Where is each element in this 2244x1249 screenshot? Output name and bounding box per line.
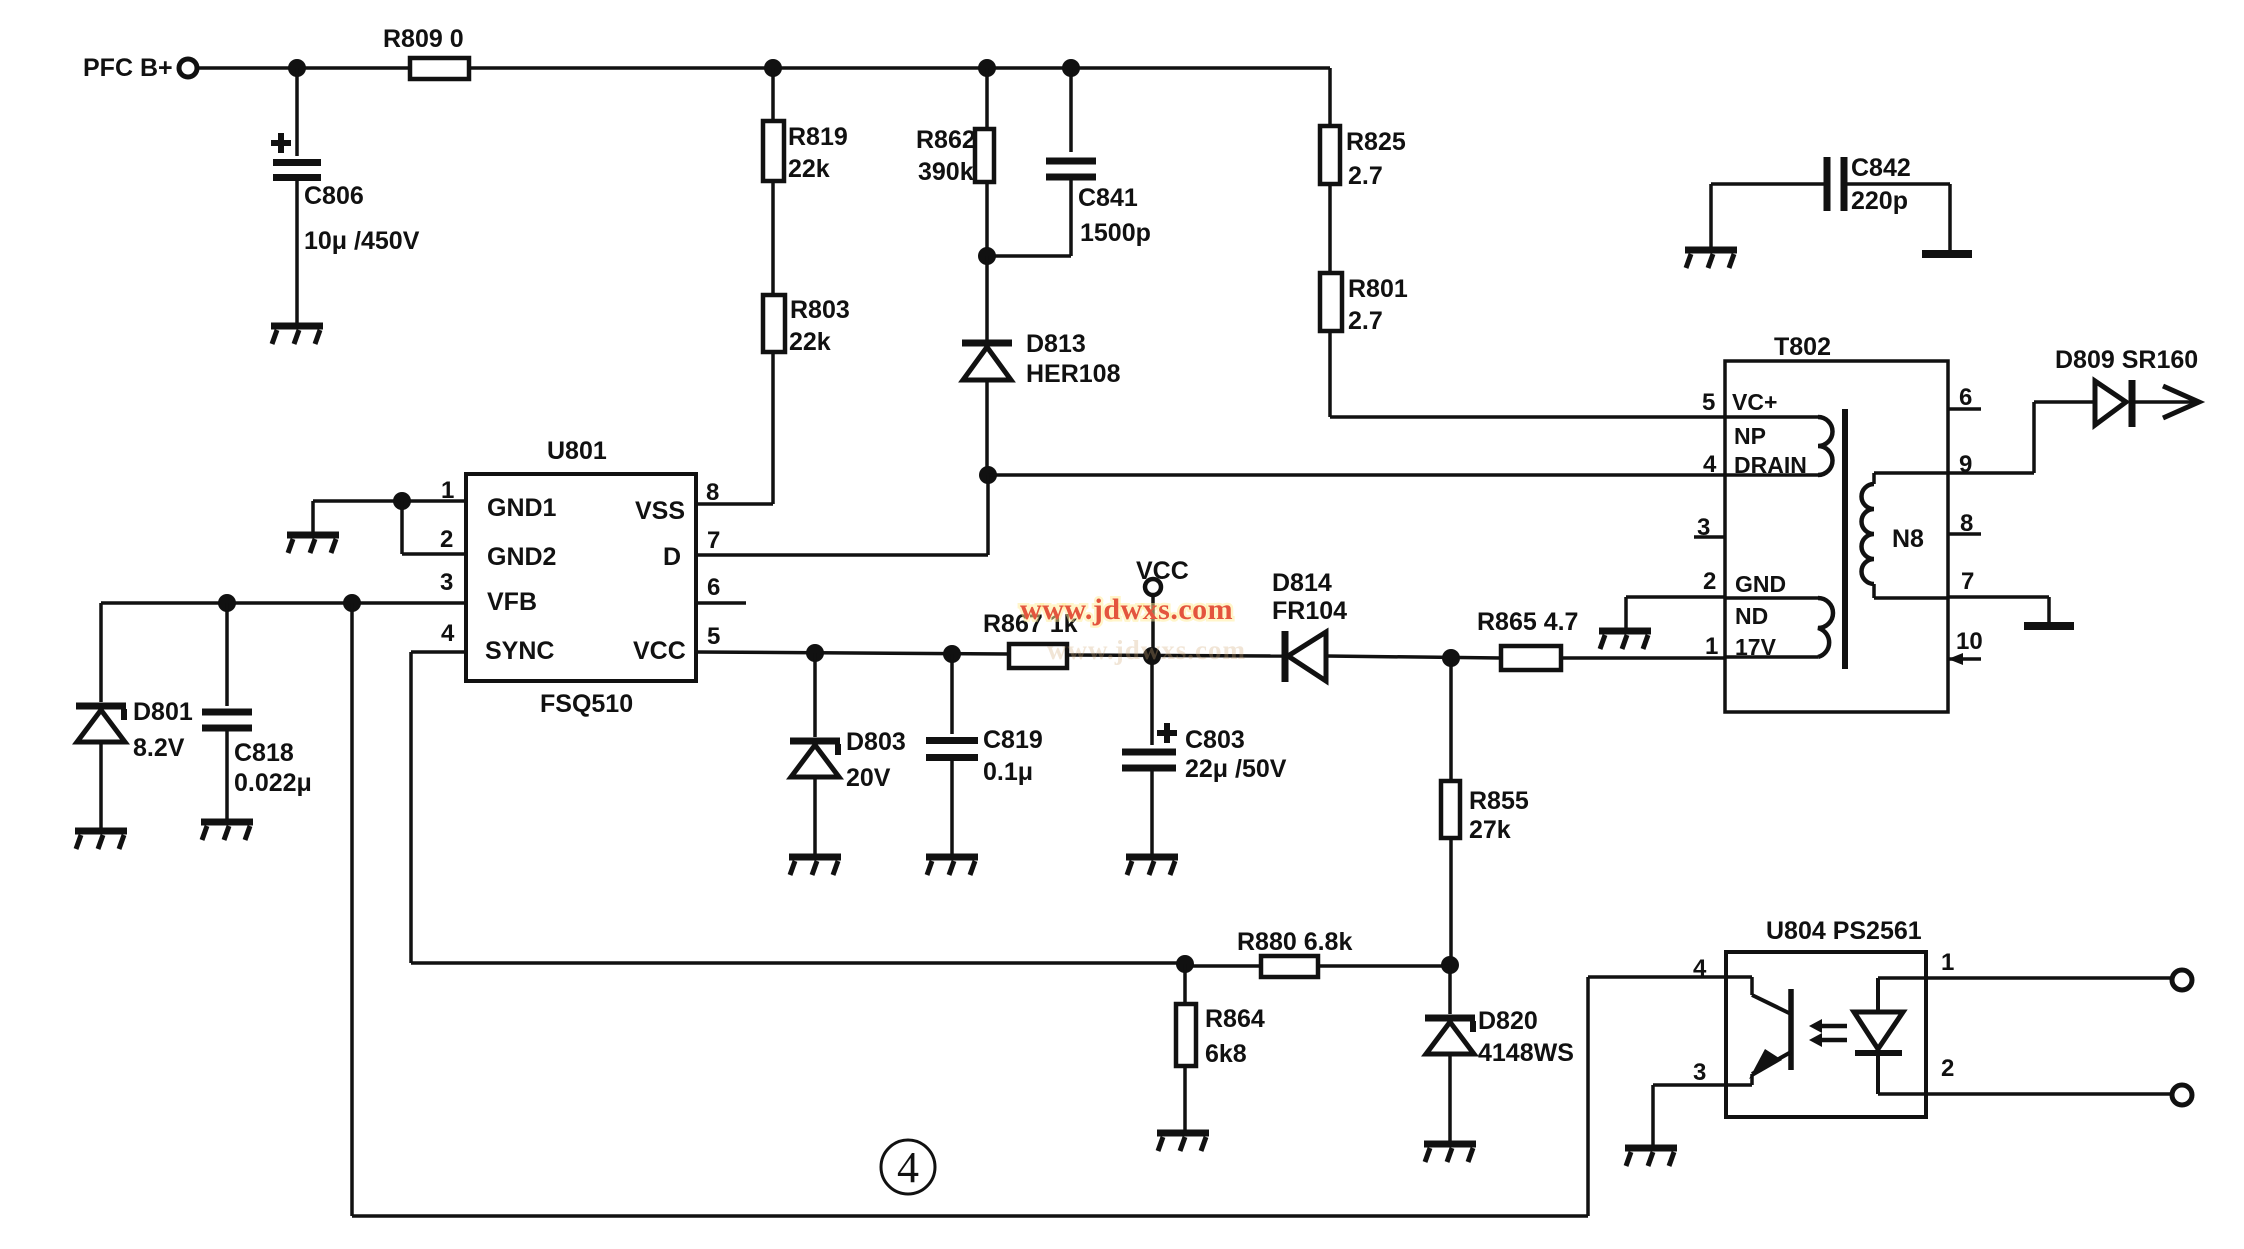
capacitor C842 — [1711, 182, 1824, 186]
T802 primary winding NP — [1725, 415, 1818, 419]
junction top-C841 — [1062, 59, 1080, 77]
node terminal pin1 — [2172, 970, 2192, 990]
wire drain down to U801 pin7 — [986, 475, 990, 555]
svg-text:VCC: VCC — [1136, 557, 1189, 585]
svg-text:D814: D814 — [1272, 569, 1332, 597]
resistor R880 — [1261, 956, 1318, 977]
resistor R864 — [1183, 964, 1187, 1004]
wire C842 right down — [1948, 184, 1952, 252]
svg-text:17V: 17V — [1735, 634, 1777, 660]
capacitor C819 — [950, 654, 954, 734]
svg-text:5: 5 — [1702, 389, 1715, 416]
wire VFB to D801 — [99, 603, 103, 702]
T802 secondary winding N8 — [1874, 471, 1948, 475]
junction VCC-R855 — [1442, 649, 1460, 667]
svg-text:4: 4 — [1693, 955, 1707, 982]
svg-text:D801: D801 — [133, 698, 193, 726]
svg-text:2.7: 2.7 — [1348, 307, 1383, 335]
junction VFB-C818 — [218, 594, 236, 612]
resistor R862 — [985, 68, 989, 129]
svg-text:3: 3 — [440, 569, 453, 596]
svg-text:R865 4.7: R865 4.7 — [1477, 608, 1578, 636]
svg-text:www.jdwxs.com: www.jdwxs.com — [1047, 635, 1246, 665]
capacitor C818 — [225, 603, 229, 706]
T802 aux winding ND — [1725, 596, 1818, 600]
diode D814 — [1285, 631, 1326, 682]
node VCC terminal — [1145, 579, 1161, 595]
svg-text:1500p: 1500p — [1080, 219, 1151, 247]
wire U801 pin1 — [402, 499, 466, 503]
svg-text:0.022μ: 0.022μ — [234, 769, 312, 797]
junction VCC node — [1143, 647, 1161, 665]
junction pin1 — [393, 492, 411, 510]
stub U801 pin6 — [696, 601, 746, 605]
diode D813 — [962, 343, 1012, 380]
wire D809 out — [2135, 400, 2200, 404]
resistor R803 — [763, 295, 785, 352]
ground D803 — [789, 857, 841, 875]
wire U801 pin4 SYNC — [411, 650, 466, 654]
svg-text:2: 2 — [1703, 568, 1716, 595]
zener D820 — [1448, 965, 1452, 1014]
svg-text:NP: NP — [1734, 423, 1766, 449]
svg-text:R880 6.8k: R880 6.8k — [1237, 928, 1352, 956]
svg-text:8.2V: 8.2V — [133, 734, 185, 762]
svg-text:T802: T802 — [1774, 333, 1831, 361]
ground C818 — [201, 822, 253, 840]
resistor R819 — [763, 121, 784, 181]
arrow out — [2163, 386, 2199, 418]
wire R862-junction — [985, 182, 989, 256]
svg-text:R825: R825 — [1346, 128, 1406, 156]
svg-text:27k: 27k — [1469, 816, 1511, 844]
wire T802 pin7 to ground — [1948, 595, 2049, 599]
svg-text:22k: 22k — [788, 155, 830, 183]
svg-text:4: 4 — [441, 620, 455, 647]
capacitor C803 — [1150, 656, 1154, 745]
svg-text:R801: R801 — [1348, 275, 1408, 303]
ground T802 pin7 — [2024, 622, 2074, 630]
svg-text:C842: C842 — [1851, 154, 1911, 182]
svg-text:7: 7 — [1961, 568, 1974, 595]
LED U804 — [1876, 978, 1880, 1012]
junction top-R862 — [978, 59, 996, 77]
node terminal pin2 — [2172, 1085, 2192, 1105]
svg-text:2: 2 — [440, 526, 453, 553]
svg-text:www.jdwxs.com: www.jdwxs.com — [1020, 593, 1233, 626]
wire U804 pin2 — [1878, 1092, 1926, 1096]
svg-text:C803: C803 — [1185, 726, 1245, 754]
transistor U804 phototransistor — [1726, 975, 1752, 979]
svg-text:GND: GND — [1735, 571, 1786, 597]
svg-text:10: 10 — [1956, 628, 1983, 655]
ground C806 — [271, 326, 323, 344]
page number 4 — [881, 1140, 935, 1194]
wire D813-junction — [985, 380, 989, 475]
svg-text:6: 6 — [1959, 384, 1972, 411]
svg-text:D803: D803 — [846, 728, 906, 756]
junction drain node — [979, 466, 997, 484]
ground C842 left — [1685, 250, 1737, 268]
svg-text:R855: R855 — [1469, 787, 1529, 815]
svg-text:0.1μ: 0.1μ — [983, 758, 1033, 786]
svg-text:SYNC: SYNC — [485, 637, 554, 665]
resistor R867 — [1009, 644, 1067, 668]
svg-text:DRAIN: DRAIN — [1734, 452, 1807, 478]
junction R855-R880 — [1441, 956, 1459, 974]
svg-text:U801: U801 — [547, 437, 607, 465]
wire U801 pin8 VSS — [696, 502, 773, 506]
svg-text:ND: ND — [1735, 603, 1768, 629]
wire top rail — [197, 66, 410, 70]
svg-text:R862: R862 — [916, 126, 976, 154]
wire to D813 — [985, 256, 989, 340]
junction top-C806 — [288, 59, 306, 77]
junction VFB-feedback — [343, 594, 361, 612]
wire T802 pin9 — [1948, 471, 2034, 475]
stub T802 pin8 — [1948, 532, 1981, 536]
stub T802 pin3 — [1694, 535, 1725, 539]
wire U801 pin2 — [400, 501, 404, 554]
svg-text:20V: 20V — [846, 764, 891, 792]
capacitor C806 — [295, 68, 299, 156]
ground T802 GND — [1599, 631, 1651, 649]
wire R819 chain — [771, 68, 775, 121]
wire VFB feedback down — [350, 603, 354, 1216]
wire U804 pin3 — [1653, 1083, 1752, 1087]
svg-text:8: 8 — [706, 479, 719, 506]
resistor R809 — [410, 58, 469, 79]
zener D801 — [76, 706, 126, 742]
svg-text:2.7: 2.7 — [1348, 162, 1383, 190]
resistor R801 — [1328, 184, 1332, 273]
svg-text:VSS: VSS — [635, 497, 685, 525]
capacitor C841 — [1069, 68, 1073, 152]
svg-text:6k8: 6k8 — [1205, 1040, 1247, 1068]
svg-text:R819: R819 — [788, 123, 848, 151]
svg-text:7: 7 — [707, 527, 720, 554]
svg-text:FR104: FR104 — [1272, 597, 1347, 625]
ground U801 pin1 — [287, 535, 339, 553]
svg-text:PFC B+: PFC B+ — [83, 54, 173, 82]
svg-text:R864: R864 — [1205, 1005, 1265, 1033]
wire T802 gnd — [1626, 595, 1725, 599]
svg-text:220p: 220p — [1851, 187, 1908, 215]
svg-text:6: 6 — [707, 574, 720, 601]
svg-text:VFB: VFB — [487, 588, 537, 616]
svg-text:3: 3 — [1693, 1059, 1706, 1086]
svg-text:22k: 22k — [789, 328, 831, 356]
ground C842 right — [1922, 250, 1972, 258]
junction R862-C841 — [978, 247, 996, 265]
junction VCC-D803 — [806, 644, 824, 662]
junction R880-R864 — [1176, 955, 1194, 973]
resistor R825 — [1328, 68, 1332, 126]
ground U804 pin3 — [1625, 1148, 1677, 1166]
ground C819 — [926, 857, 978, 875]
wire U801 pin7 D — [696, 553, 988, 557]
resistor R855 — [1449, 658, 1453, 781]
IC U801 box — [466, 474, 696, 681]
wire U804 pin1 — [1878, 976, 1926, 980]
resistor R865 — [1501, 646, 1561, 670]
wire drain to T802 pin4 — [988, 473, 1725, 477]
svg-text:1: 1 — [1941, 949, 1954, 976]
junction top-R819 — [764, 59, 782, 77]
ground D801 — [75, 831, 127, 849]
ground C803 — [1126, 857, 1178, 875]
svg-text:VC+: VC+ — [1732, 389, 1777, 415]
zener D803 — [813, 653, 817, 737]
svg-text:GND2: GND2 — [487, 543, 556, 571]
svg-text:N8: N8 — [1892, 525, 1924, 553]
svg-text:4: 4 — [897, 1143, 919, 1192]
svg-text:VCC: VCC — [633, 637, 686, 665]
wire riser to opto — [1586, 977, 1590, 1216]
optocoupler U804 PS2561 box — [1726, 952, 1926, 1117]
svg-text:C818: C818 — [234, 739, 294, 767]
svg-text:U804 PS2561: U804 PS2561 — [1766, 917, 1922, 945]
ground D820 — [1424, 1144, 1476, 1162]
svg-text:5: 5 — [707, 623, 720, 650]
svg-text:GND1: GND1 — [487, 494, 557, 522]
svg-text:R809 0: R809 0 — [383, 25, 464, 53]
svg-text:D820: D820 — [1478, 1007, 1538, 1035]
svg-text:C806: C806 — [304, 182, 364, 210]
wire C842 left down — [1709, 184, 1713, 247]
svg-text:R803: R803 — [790, 296, 850, 324]
svg-text:D809 SR160: D809 SR160 — [2055, 346, 2198, 374]
svg-text:HER108: HER108 — [1026, 360, 1121, 388]
svg-text:FSQ510: FSQ510 — [540, 690, 633, 718]
wire R801 to T802 pin5 — [1328, 331, 1332, 417]
svg-text:390k: 390k — [918, 158, 974, 186]
T802 core — [1842, 409, 1848, 669]
light arrows — [1818, 1024, 1847, 1029]
svg-text:1: 1 — [1705, 633, 1718, 660]
wire U801 pin3 VFB — [101, 601, 466, 605]
svg-text:D: D — [663, 543, 681, 571]
ground R864 — [1157, 1133, 1209, 1151]
stub T802 pin6 — [1948, 407, 1981, 411]
svg-text:22μ /50V: 22μ /50V — [1185, 755, 1287, 783]
stub T802 pin10 — [1948, 657, 1981, 661]
wire bottom rail — [352, 1214, 1588, 1218]
svg-text:4: 4 — [1703, 451, 1717, 478]
svg-text:D813: D813 — [1026, 330, 1086, 358]
svg-text:2: 2 — [1941, 1055, 1954, 1082]
junction VCC-C819 — [943, 645, 961, 663]
diode D809 — [2095, 381, 2126, 425]
wire VCC rail — [696, 652, 1009, 654]
svg-text:10μ /450V: 10μ /450V — [304, 227, 420, 255]
svg-text:C819: C819 — [983, 726, 1043, 754]
svg-text:C841: C841 — [1078, 184, 1138, 212]
transformer T802 box — [1725, 361, 1948, 712]
svg-text:4148WS: 4148WS — [1478, 1039, 1574, 1067]
